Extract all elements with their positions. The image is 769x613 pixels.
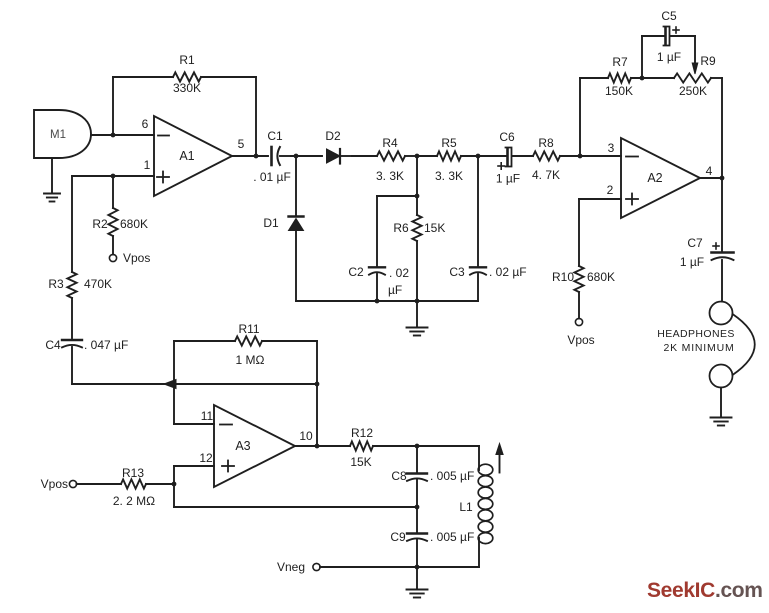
ground below C9 xyxy=(407,567,428,598)
value 1 uF C7 xyxy=(680,255,704,269)
svg-text:R7: R7 xyxy=(612,55,628,69)
watermark SeekIC.com xyxy=(647,579,763,602)
svg-text:Vneg: Vneg xyxy=(277,560,305,574)
value 4.7K xyxy=(532,168,560,182)
resistor R4 xyxy=(352,151,417,160)
label R2 xyxy=(92,217,108,231)
capacitor C6 xyxy=(478,148,533,170)
wire R11 left vertical xyxy=(173,341,175,384)
value 2.2 Mohm xyxy=(113,494,155,508)
svg-text:15K: 15K xyxy=(424,221,445,235)
op-amp A1 xyxy=(154,116,232,196)
value 15K R6 xyxy=(424,221,445,235)
svg-text:A1: A1 xyxy=(179,149,194,163)
op-amp A2 xyxy=(621,138,700,218)
value 680K xyxy=(120,217,148,231)
label C7 xyxy=(687,236,703,250)
label R4 xyxy=(382,136,398,150)
svg-text:. 047 µF: . 047 µF xyxy=(84,338,128,352)
wire M1 to A1 inverting input xyxy=(91,134,154,136)
pin 6 label xyxy=(142,117,149,131)
wire top to L1 xyxy=(417,445,479,447)
wire C4 down to A3 input line xyxy=(72,347,165,384)
junction node R13 xyxy=(172,482,177,487)
svg-text:R5: R5 xyxy=(441,136,457,150)
value uF C2 xyxy=(388,283,402,297)
junction node R12-C8 xyxy=(415,444,420,449)
svg-text:A3: A3 xyxy=(235,439,250,453)
svg-text:10: 10 xyxy=(299,429,313,443)
svg-text:HEADPHONES: HEADPHONES xyxy=(657,328,735,340)
wire bias rail to C8-C9 midpoint xyxy=(174,506,417,508)
value .005 uF C9 xyxy=(430,530,474,544)
svg-text:. 005 µF: . 005 µF xyxy=(430,469,474,483)
label R13 xyxy=(122,466,144,480)
resistor R8 xyxy=(533,151,621,160)
headphones jack bottom xyxy=(710,365,733,388)
svg-text:R1: R1 xyxy=(179,53,195,67)
wire up from inverting node to R7 xyxy=(579,78,581,156)
pin 1 label xyxy=(144,158,151,172)
svg-text:A2: A2 xyxy=(647,171,662,185)
label C3 xyxy=(449,265,465,279)
svg-text:R2: R2 xyxy=(92,217,108,231)
svg-text:R3: R3 xyxy=(48,277,64,291)
svg-text:1 µF: 1 µF xyxy=(680,255,704,269)
svg-text:2. 2 MΩ: 2. 2 MΩ xyxy=(113,494,155,508)
svg-text:11: 11 xyxy=(201,409,214,423)
Vpos terminal below R2 xyxy=(109,254,116,261)
potentiometer R9 xyxy=(674,73,722,82)
value 1 uF C6 xyxy=(496,172,520,186)
value 150K xyxy=(605,84,633,98)
resistor R12 xyxy=(350,441,417,450)
headphones cord arc xyxy=(733,314,755,375)
svg-text:R4: R4 xyxy=(382,136,398,150)
junction node after C1 xyxy=(291,154,322,159)
svg-text:D2: D2 xyxy=(325,129,341,143)
pin 3 label xyxy=(608,141,615,155)
svg-text:. 005 µF: . 005 µF xyxy=(430,530,474,544)
junction node at A1 inverting input xyxy=(111,133,116,138)
wire L1 bottom rail xyxy=(320,566,479,568)
svg-text:2K MINIMUM: 2K MINIMUM xyxy=(664,342,735,354)
pin 2 label xyxy=(607,183,614,197)
junction node at R2 top xyxy=(111,174,116,179)
value 470K xyxy=(84,277,112,291)
label Vpos A2 xyxy=(567,333,594,347)
label 2K MINIMUM xyxy=(664,342,735,354)
capacitor C3 xyxy=(470,267,486,301)
arrow beside L1 xyxy=(496,444,503,473)
value 250K xyxy=(679,84,707,98)
label C9 xyxy=(390,530,406,544)
label R11 xyxy=(238,322,259,336)
svg-text:C2: C2 xyxy=(348,265,364,279)
value .02 uF C3 xyxy=(489,265,527,279)
svg-text:L1: L1 xyxy=(459,500,473,514)
label R8 xyxy=(538,136,554,150)
label R6 xyxy=(393,221,409,235)
capacitor C5 xyxy=(642,27,695,46)
svg-text:5: 5 xyxy=(238,137,245,151)
wire C5 to R9 wiper with arrow xyxy=(692,36,698,74)
junction node C2 bottom xyxy=(375,299,380,304)
label C5 xyxy=(661,9,677,23)
pin 10 label xyxy=(299,429,313,443)
value 1 uF C5 xyxy=(657,50,681,64)
junction node A2 output xyxy=(720,176,725,181)
junction node at A1 output xyxy=(254,154,259,159)
diode D2 xyxy=(327,149,353,164)
svg-text:3: 3 xyxy=(608,141,615,155)
svg-text:6: 6 xyxy=(142,117,149,131)
resistor R1 xyxy=(113,72,256,81)
svg-text:15K: 15K xyxy=(350,455,371,469)
junction node R7-C5 xyxy=(640,76,645,81)
label R9 xyxy=(700,54,716,68)
wire R6 branch top xyxy=(416,156,418,196)
value .01 uF xyxy=(253,170,291,184)
svg-text:R12: R12 xyxy=(351,426,373,440)
wire C3 branch xyxy=(477,156,479,267)
label C1 xyxy=(267,129,283,143)
capacitor C2 xyxy=(369,267,385,301)
junction node at A2 inverting input xyxy=(578,154,583,159)
label R5 xyxy=(441,136,457,150)
wire left branch down xyxy=(71,176,73,272)
wire A2 noninverting input xyxy=(579,199,621,266)
wire A3 inverting input xyxy=(174,384,214,424)
svg-text:150K: 150K xyxy=(605,84,633,98)
svg-text:Vpos: Vpos xyxy=(123,251,150,265)
label Vneg xyxy=(277,560,305,574)
svg-text:C1: C1 xyxy=(267,129,283,143)
value 330K xyxy=(173,81,201,95)
pin 5 label xyxy=(238,137,245,151)
label R1 xyxy=(179,53,195,67)
svg-text:C5: C5 xyxy=(661,9,677,23)
junction node C8-C9 xyxy=(415,505,420,510)
value 680K R10 xyxy=(587,270,615,284)
wire C2 branch xyxy=(377,196,417,267)
wire down to C7 xyxy=(721,178,723,252)
svg-text:3. 3K: 3. 3K xyxy=(376,169,404,183)
value .047 uF xyxy=(84,338,128,352)
wire R11 right vertical xyxy=(316,341,318,446)
svg-text:680K: 680K xyxy=(587,270,615,284)
svg-text:. 01 µF: . 01 µF xyxy=(253,170,291,184)
resistor R6 xyxy=(412,196,421,301)
svg-text:C7: C7 xyxy=(687,236,703,250)
wire feedback up from inverting input xyxy=(112,77,114,135)
resistor R11 xyxy=(174,336,317,345)
svg-text:250K: 250K xyxy=(679,84,707,98)
Vneg terminal xyxy=(313,563,320,570)
svg-text:330K: 330K xyxy=(173,81,201,95)
svg-text:C4: C4 xyxy=(45,338,61,352)
wire feedback down to A1 output xyxy=(255,77,257,156)
svg-text:1 MΩ: 1 MΩ xyxy=(236,353,265,367)
label Vpos xyxy=(123,251,150,265)
wire A1 noninverting input xyxy=(72,175,154,177)
svg-text:M1: M1 xyxy=(50,129,66,141)
pin 11 label xyxy=(201,409,214,423)
svg-text:4. 7K: 4. 7K xyxy=(532,168,560,182)
resistor R3 xyxy=(67,272,76,338)
svg-text:C8: C8 xyxy=(391,469,407,483)
capacitor C9 xyxy=(407,507,427,567)
arrow on input rail xyxy=(164,380,176,389)
Vpos terminal left xyxy=(69,480,76,487)
wire A3 input rail xyxy=(165,383,317,385)
junction node R6 top xyxy=(415,194,420,199)
label C2 xyxy=(348,265,364,279)
capacitor C7 xyxy=(712,243,734,302)
wire C5 branch xyxy=(642,36,663,78)
pin 12 label xyxy=(199,451,213,465)
svg-text:SeekIC.com: SeekIC.com xyxy=(647,579,763,602)
svg-text:1 µF: 1 µF xyxy=(657,50,681,64)
label D2 xyxy=(325,129,341,143)
resistor R13 xyxy=(77,479,175,488)
svg-text:R11: R11 xyxy=(238,322,259,336)
pin 4 label xyxy=(706,164,713,178)
wire feedback down to A2 output xyxy=(721,78,723,178)
wire A2 output xyxy=(700,177,722,179)
svg-text:R9: R9 xyxy=(700,54,716,68)
capacitor C8 xyxy=(407,446,427,507)
junction node C9 bottom xyxy=(415,565,420,570)
svg-text:1: 1 xyxy=(144,158,151,172)
label Vpos A3 xyxy=(41,477,68,491)
svg-text:C3: C3 xyxy=(449,265,465,279)
capacitor C1 xyxy=(232,147,291,165)
svg-text:R10: R10 xyxy=(552,270,574,284)
label R10 xyxy=(552,270,574,284)
resistor R5 xyxy=(417,151,478,160)
junction node after R4 xyxy=(415,154,420,159)
svg-text:2: 2 xyxy=(607,183,614,197)
svg-text:680K: 680K xyxy=(120,217,148,231)
svg-text:R6: R6 xyxy=(393,221,409,235)
wire A3 output xyxy=(295,445,350,447)
resistor R2 xyxy=(108,176,117,255)
svg-text:Vpos: Vpos xyxy=(41,477,68,491)
ground below diode network xyxy=(407,301,428,336)
svg-text:4: 4 xyxy=(706,164,713,178)
ground below M1 xyxy=(44,158,60,202)
microphone M1 xyxy=(34,110,91,158)
value 3.3K R5 xyxy=(435,169,463,183)
resistor R7 xyxy=(580,73,674,82)
svg-text:. 02: . 02 xyxy=(389,266,409,280)
label D1 xyxy=(263,216,279,230)
value .02 C2 xyxy=(389,266,409,280)
svg-text:R8: R8 xyxy=(538,136,554,150)
Vpos terminal below R10 xyxy=(575,318,582,325)
svg-text:C9: C9 xyxy=(390,530,406,544)
label C6 xyxy=(499,130,515,144)
op-amp A3 xyxy=(214,405,295,487)
value .005 uF C8 xyxy=(430,469,474,483)
resistor R10 xyxy=(574,266,583,319)
svg-text:µF: µF xyxy=(388,283,402,297)
svg-text:470K: 470K xyxy=(84,277,112,291)
svg-text:R13: R13 xyxy=(122,466,144,480)
svg-text:3. 3K: 3. 3K xyxy=(435,169,463,183)
wire A3 noninverting input xyxy=(174,466,214,507)
svg-text:12: 12 xyxy=(199,451,213,465)
label C8 xyxy=(391,469,407,483)
headphones jack top xyxy=(710,302,733,325)
label R3 xyxy=(48,277,64,291)
svg-text:Vpos: Vpos xyxy=(567,333,594,347)
junction node A3 output-R11 xyxy=(315,444,320,449)
svg-text:1 µF: 1 µF xyxy=(496,172,520,186)
ground below headphones xyxy=(711,388,732,426)
value 1 Mohm xyxy=(236,353,265,367)
label R7 xyxy=(612,55,628,69)
value 3.3K R4 xyxy=(376,169,404,183)
svg-text:. 02 µF: . 02 µF xyxy=(489,265,527,279)
label HEADPHONES xyxy=(657,328,735,340)
label R12 xyxy=(351,426,373,440)
svg-text:C6: C6 xyxy=(499,130,515,144)
label L1 xyxy=(459,500,473,514)
capacitor C4 xyxy=(62,340,82,347)
inductor L1 xyxy=(478,446,493,567)
diode D1 xyxy=(289,156,304,301)
junction node R6 bottom xyxy=(415,299,420,304)
junction node rail-R11 xyxy=(315,382,320,387)
junction node after R5 xyxy=(476,154,481,159)
svg-text:D1: D1 xyxy=(263,216,279,230)
wire bottom rail of diode network xyxy=(296,300,478,302)
label C4 xyxy=(45,338,61,352)
value 15K R12 xyxy=(350,455,371,469)
